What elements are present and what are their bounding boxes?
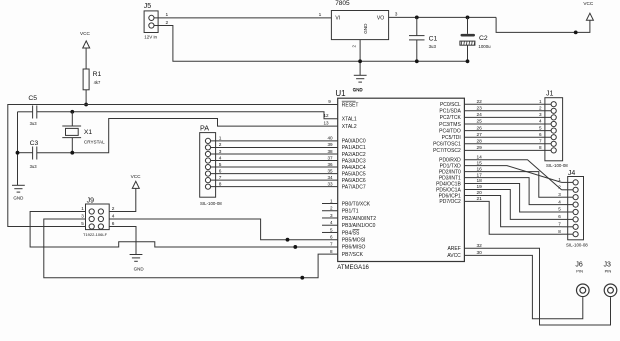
- svg-text:30: 30: [477, 250, 483, 256]
- J4 pin 4: [558, 199, 578, 207]
- svg-text:12: 12: [323, 113, 329, 118]
- svg-text:7: 7: [558, 222, 561, 227]
- wire U1 PD0 to J4 pin 2: [464, 154, 561, 189]
- J4 pin 5: [558, 207, 578, 215]
- wire VO to VCC: [415, 16, 590, 35]
- connector J1: [545, 90, 568, 167]
- svg-text:T1922-106LF: T1922-106LF: [83, 232, 108, 237]
- connector PA: [200, 124, 223, 206]
- wire U1 PC2 to J1 pin 3: [464, 112, 556, 120]
- svg-text:VCC: VCC: [80, 31, 91, 36]
- wire J9 pin4 MOSI to U1 PB5: [109, 219, 338, 242]
- svg-text:24: 24: [477, 112, 483, 118]
- svg-text:20: 20: [477, 190, 483, 196]
- svg-text:8: 8: [330, 249, 333, 254]
- svg-text:PA3/ADC3: PA3/ADC3: [342, 158, 366, 164]
- U1 pin 2 stub: [322, 206, 338, 211]
- PA pin 5 wire: [205, 162, 337, 170]
- wire U1 PD6 to J4 pin 7: [464, 190, 561, 227]
- svg-text:3u3: 3u3: [429, 44, 437, 49]
- svg-text:VCC: VCC: [583, 1, 594, 6]
- wire J9 pin1 MISO to U1 PB6: [30, 212, 338, 249]
- PA pin 1 wire: [205, 136, 337, 144]
- svg-text:25: 25: [477, 119, 483, 125]
- svg-text:GND: GND: [134, 267, 145, 272]
- svg-text:18: 18: [477, 178, 483, 184]
- wire U1 PC1 to J1 pin 2: [464, 106, 556, 114]
- connector J5: [144, 3, 158, 39]
- PA pin 4 wire: [205, 155, 337, 163]
- connector J3 pin: [604, 262, 617, 297]
- svg-text:C5: C5: [28, 95, 37, 102]
- svg-text:C1: C1: [429, 35, 438, 42]
- svg-text:PIN: PIN: [605, 268, 612, 273]
- svg-text:SIL-100-08: SIL-100-08: [200, 201, 222, 206]
- svg-text:7805: 7805: [335, 0, 350, 7]
- svg-text:29: 29: [477, 145, 483, 151]
- svg-text:AVCC: AVCC: [447, 253, 461, 259]
- svg-text:SIL-100-08: SIL-100-08: [566, 243, 588, 248]
- svg-text:VO: VO: [377, 16, 384, 22]
- wire U1 PC7 to J1 pin 8: [464, 145, 556, 153]
- svg-text:PA0/ADC0: PA0/ADC0: [342, 139, 366, 145]
- svg-text:AREF: AREF: [447, 246, 460, 252]
- svg-text:2: 2: [539, 106, 542, 111]
- U1 pin 9 label: [328, 99, 331, 104]
- svg-text:26: 26: [477, 125, 483, 131]
- wire U1 PD3 to J4 pin 4: [464, 172, 561, 204]
- svg-text:2: 2: [351, 45, 356, 48]
- svg-text:PB3/AIN1/OC0: PB3/AIN1/OC0: [342, 223, 376, 229]
- capacitor C3: [18, 140, 73, 169]
- svg-text:27: 27: [477, 132, 483, 138]
- svg-text:3: 3: [330, 213, 333, 218]
- wire U1 PD1 to J4 pin 1: [464, 160, 561, 182]
- svg-text:PB0/T0/XCK: PB0/T0/XCK: [342, 201, 371, 207]
- svg-text:1: 1: [539, 99, 542, 104]
- svg-text:PA7/ADC7: PA7/ADC7: [342, 184, 366, 190]
- svg-text:38: 38: [327, 149, 333, 154]
- svg-text:RESET: RESET: [342, 102, 359, 108]
- svg-text:PB6/MISO: PB6/MISO: [342, 245, 366, 251]
- U1 pin 3 stub: [322, 213, 338, 218]
- J4 pin 6: [558, 214, 578, 222]
- wire J9 pin2 to VCC: [109, 188, 136, 211]
- svg-text:GND: GND: [13, 195, 24, 200]
- svg-text:8: 8: [539, 145, 542, 150]
- svg-text:PC3/TMS: PC3/TMS: [439, 122, 461, 128]
- svg-text:2: 2: [166, 20, 169, 26]
- svg-text:39: 39: [327, 142, 333, 147]
- wire J9 pin3 SCK to U1 PB7: [44, 219, 338, 280]
- svg-text:PC4/TDO: PC4/TDO: [439, 128, 461, 134]
- U1 pin 7 label: [330, 242, 333, 247]
- svg-text:PC6/TOSC1: PC6/TOSC1: [433, 142, 461, 148]
- svg-text:PA2/ADC2: PA2/ADC2: [342, 152, 366, 158]
- svg-text:6: 6: [539, 132, 542, 137]
- svg-text:GND: GND: [353, 88, 363, 93]
- svg-text:PA5/ADC5: PA5/ADC5: [342, 171, 366, 177]
- svg-text:C3: C3: [30, 140, 39, 147]
- ground bottom left: [12, 185, 25, 200]
- svg-text:9: 9: [328, 99, 331, 104]
- svg-text:8: 8: [558, 229, 561, 234]
- svg-text:5: 5: [539, 125, 542, 130]
- svg-text:C2: C2: [479, 35, 488, 42]
- svg-text:3: 3: [558, 192, 561, 197]
- svg-text:1: 1: [219, 136, 222, 142]
- op-amp U1 ATMEGA16 body: [335, 88, 464, 271]
- svg-text:8: 8: [219, 181, 222, 187]
- wire U1 PC3 to J1 pin 4: [464, 119, 556, 127]
- svg-text:PB7/SCK: PB7/SCK: [342, 252, 364, 258]
- svg-text:R1: R1: [93, 71, 102, 78]
- svg-text:PB2/AIN0/INT2: PB2/AIN0/INT2: [342, 216, 376, 222]
- svg-text:16: 16: [477, 166, 483, 172]
- voltage regulator 7805: [331, 0, 388, 39]
- power symbol VCC left: [80, 31, 91, 69]
- J9 right pin labels: [112, 206, 115, 227]
- svg-text:PB4/SS: PB4/SS: [342, 230, 360, 236]
- PA pin 7 wire: [205, 175, 337, 183]
- capacitor C5: [18, 95, 73, 126]
- svg-text:2: 2: [330, 206, 333, 211]
- svg-text:1: 1: [81, 206, 84, 211]
- wire U1 AREF to J3: [464, 243, 610, 325]
- svg-text:6: 6: [219, 168, 222, 174]
- svg-text:U1: U1: [335, 89, 346, 98]
- wire cap rail to ground: [16, 112, 20, 186]
- svg-text:35: 35: [327, 168, 333, 173]
- wire U1 PD4 to J4 pin 5: [464, 178, 561, 212]
- U1 pin 13 label: [323, 121, 329, 126]
- svg-text:J5: J5: [144, 3, 152, 10]
- svg-text:37: 37: [327, 155, 333, 160]
- svg-text:3u3: 3u3: [30, 164, 38, 169]
- svg-text:12V in: 12V in: [144, 35, 157, 40]
- power symbol VCC at J9: [131, 174, 142, 188]
- svg-text:5: 5: [330, 227, 333, 232]
- svg-text:34: 34: [327, 175, 333, 180]
- svg-text:28: 28: [477, 139, 483, 145]
- crystal X1: [62, 112, 105, 153]
- svg-text:13: 13: [323, 121, 329, 126]
- svg-text:PA6/ADC6: PA6/ADC6: [342, 178, 366, 184]
- wire J5 pin2 to ground rail: [154, 20, 468, 62]
- svg-text:PC7/TOSC2: PC7/TOSC2: [433, 148, 461, 154]
- svg-text:1: 1: [319, 12, 322, 18]
- svg-text:PD7/OC2: PD7/OC2: [439, 199, 461, 205]
- U1 pin 1 stub: [322, 198, 338, 203]
- wire XTAL1 net: [70, 110, 337, 119]
- svg-text:VCC: VCC: [131, 174, 142, 179]
- svg-text:PC1/SDA: PC1/SDA: [439, 109, 461, 115]
- PA pin 2 wire: [205, 142, 337, 150]
- U1 pin 6 label: [330, 235, 333, 240]
- svg-text:33: 33: [327, 181, 333, 186]
- svg-text:2: 2: [219, 142, 222, 148]
- connector J4: [566, 170, 588, 248]
- wire J5 pin1 to regulator VI: [154, 12, 331, 18]
- svg-text:5: 5: [219, 162, 222, 168]
- svg-text:PA: PA: [200, 124, 209, 133]
- wire XTAL2 net: [70, 119, 337, 155]
- svg-text:1000u: 1000u: [478, 44, 491, 49]
- svg-text:PB5/MOSI: PB5/MOSI: [342, 238, 366, 244]
- wire U1 PC5 to J1 pin 6: [464, 132, 556, 140]
- wire U1 PC6 to J1 pin 7: [464, 139, 556, 147]
- svg-text:CRYSTAL: CRYSTAL: [84, 140, 105, 145]
- svg-text:32: 32: [477, 243, 483, 249]
- svg-text:1: 1: [330, 198, 333, 203]
- wire U1 AVCC to J6: [464, 250, 582, 319]
- svg-text:17: 17: [477, 172, 483, 178]
- wire R1 to RESET net: [84, 90, 88, 107]
- svg-text:5: 5: [81, 221, 84, 226]
- svg-text:4: 4: [219, 155, 222, 161]
- wire U1 PD5 to J4 pin 6: [464, 184, 561, 219]
- svg-text:3: 3: [81, 214, 84, 219]
- wire U1 PD2 to J4 pin 3: [464, 166, 561, 197]
- PA pin 3 wire: [205, 149, 337, 157]
- capacitor C2 electrolytic: [460, 17, 491, 63]
- svg-text:4: 4: [330, 220, 333, 225]
- PA pin 6 wire: [205, 168, 337, 176]
- svg-text:6: 6: [330, 235, 333, 240]
- J9 left pin labels: [81, 206, 84, 226]
- svg-text:40: 40: [327, 136, 333, 141]
- capacitor C1: [409, 17, 438, 63]
- svg-text:PIN: PIN: [576, 268, 583, 273]
- wire U1 PC4 to J1 pin 5: [464, 125, 556, 133]
- svg-text:PA1/ADC1: PA1/ADC1: [342, 145, 366, 151]
- svg-text:7: 7: [330, 242, 333, 247]
- J4 pin 2: [558, 185, 578, 193]
- U1 pin 5 stub: [322, 227, 338, 232]
- svg-text:PB1/T1: PB1/T1: [342, 209, 359, 215]
- U1 pin 4 stub: [322, 220, 338, 225]
- svg-text:19: 19: [477, 184, 483, 190]
- svg-text:4: 4: [558, 199, 561, 204]
- svg-text:21: 21: [477, 196, 483, 202]
- svg-text:ATMEGA16: ATMEGA16: [337, 265, 369, 271]
- svg-text:3u3: 3u3: [30, 121, 38, 126]
- svg-text:PC2/TCK: PC2/TCK: [440, 115, 462, 121]
- regulator pin 2 GND stub: [351, 40, 362, 76]
- svg-text:SIL-100-08: SIL-100-08: [546, 163, 568, 168]
- svg-text:3: 3: [395, 12, 398, 18]
- svg-text:XTAL2: XTAL2: [342, 124, 357, 130]
- PA pin 8 wire: [205, 181, 337, 189]
- regulator pin 3 VO wire: [389, 12, 417, 18]
- connector J6 pin: [575, 262, 589, 297]
- svg-text:4k7: 4k7: [94, 80, 101, 85]
- svg-text:5: 5: [558, 207, 561, 212]
- svg-text:4: 4: [539, 119, 542, 124]
- svg-text:3: 3: [219, 149, 222, 155]
- wire U1 PC0 to J1 pin 1: [464, 99, 556, 107]
- svg-text:36: 36: [327, 162, 333, 167]
- svg-text:J1: J1: [546, 90, 554, 97]
- J4 pin 1: [558, 177, 578, 185]
- J4 pin 7: [558, 222, 578, 230]
- svg-text:15: 15: [477, 160, 483, 166]
- svg-text:VI: VI: [335, 16, 340, 22]
- svg-text:22: 22: [477, 99, 483, 105]
- J4 pin 3: [558, 192, 578, 200]
- svg-text:23: 23: [477, 106, 483, 112]
- svg-text:6: 6: [558, 214, 561, 219]
- svg-text:PC5/TDI: PC5/TDI: [442, 135, 461, 141]
- svg-text:1: 1: [166, 12, 169, 18]
- svg-text:7: 7: [539, 139, 542, 144]
- ground under regulator: [353, 75, 367, 92]
- U1 pin 12 label: [323, 113, 329, 118]
- svg-text:PA4/ADC4: PA4/ADC4: [342, 165, 366, 171]
- J4 pin 8: [558, 229, 578, 237]
- svg-text:PC0/SCL: PC0/SCL: [440, 102, 461, 108]
- wire J9 pin6 to ground: [109, 227, 136, 255]
- resistor R1: [83, 69, 101, 90]
- svg-text:XTAL1: XTAL1: [342, 117, 357, 123]
- wire U1 PD7 to J4 pin 8: [464, 196, 561, 234]
- connector J9: [83, 197, 109, 236]
- svg-text:X1: X1: [84, 129, 93, 136]
- svg-text:7: 7: [219, 175, 222, 181]
- svg-text:3: 3: [539, 112, 542, 117]
- U1 pin 8 label: [330, 249, 333, 254]
- svg-text:J4: J4: [568, 170, 576, 177]
- svg-text:GND: GND: [363, 23, 368, 34]
- svg-text:J9: J9: [87, 197, 95, 204]
- ground under J9: [130, 255, 145, 272]
- svg-text:14: 14: [477, 154, 483, 160]
- wire RESET net: [8, 105, 338, 227]
- power symbol VCC top right: [583, 1, 594, 21]
